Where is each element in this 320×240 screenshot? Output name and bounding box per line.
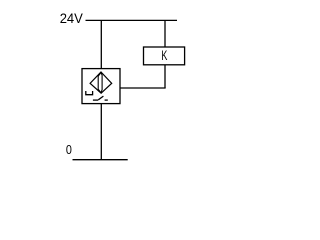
svg-text:0: 0 [66, 142, 72, 157]
svg-text:K: K [161, 47, 167, 63]
svg-text:24V: 24V [60, 10, 84, 26]
